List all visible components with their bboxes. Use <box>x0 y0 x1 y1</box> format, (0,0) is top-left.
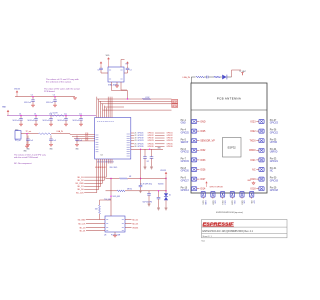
svg-text:4: 4 <box>100 121 102 122</box>
svg-text:21: 21 <box>104 161 106 163</box>
svg-text:21: 21 <box>135 133 137 135</box>
svg-text:GPIO7 GPIO8: GPIO7 GPIO8 <box>210 187 224 189</box>
svg-text:IO18: IO18 <box>250 188 256 191</box>
svg-text:IO21: IO21 <box>250 159 256 162</box>
svg-text:VDD33: VDD33 <box>158 183 164 185</box>
svg-text:GPIO14: GPIO14 <box>181 190 190 192</box>
svg-text:PCB ANTENNA: PCB ANTENNA <box>217 97 241 101</box>
svg-text:TP4_out: TP4_out <box>15 139 22 142</box>
svg-text:Sheet 1 / 1: Sheet 1 / 1 <box>203 235 212 238</box>
svg-text:SD_D1: SD_D1 <box>79 230 85 232</box>
svg-text:NC/0.1uF: NC/0.1uF <box>43 120 50 122</box>
svg-text:GND: GND <box>49 149 53 151</box>
svg-text:U0TXD: U0TXD <box>270 142 278 144</box>
svg-text:21: 21 <box>110 161 112 163</box>
svg-text:C11: C11 <box>64 113 67 115</box>
svg-text:IO22: IO22 <box>85 137 88 139</box>
svg-text:GPIO23: GPIO23 <box>137 140 143 142</box>
svg-text:SD_CLK: SD_CLK <box>76 192 84 194</box>
svg-text:NC/0.1uF: NC/0.1uF <box>58 120 65 122</box>
svg-text:S2S3CMCKD0D1: S2S3CMCKD0D1 <box>95 167 107 169</box>
svg-text:GND: GND <box>204 200 206 205</box>
svg-text:21: 21 <box>100 161 102 163</box>
svg-text:NC/0.1uF: NC/0.1uF <box>28 120 35 122</box>
svg-text:GPIO26: GPIO26 <box>137 146 143 148</box>
svg-text:GPIO23: GPIO23 <box>148 140 154 142</box>
svg-text:21: 21 <box>111 161 113 163</box>
svg-text:ESP32S3-WROOM (top view): ESP32S3-WROOM (top view) <box>216 211 243 214</box>
svg-text:GPIO23: GPIO23 <box>167 140 173 142</box>
svg-text:SD_D0: SD_D0 <box>77 189 83 191</box>
svg-text:C2: C2 <box>130 70 132 72</box>
svg-text:SD_D3: SD_D3 <box>132 223 138 225</box>
svg-text:4: 4 <box>110 121 112 122</box>
svg-text:GPIO23: GPIO23 <box>270 123 279 125</box>
svg-text:ESP32-PICO-D4 / 4M (QIO/80MHz/: ESP32-PICO-D4 / 4M (QIO/80MHz/DIO) Rev. … <box>203 231 254 233</box>
svg-text:VDD_SDIO: VDD_SDIO <box>110 167 119 169</box>
svg-text:GPIO19: GPIO19 <box>270 180 279 182</box>
svg-text:4: 4 <box>96 121 98 122</box>
svg-text:IO26: IO26 <box>200 168 206 171</box>
svg-text:C6: C6 <box>53 94 55 96</box>
svg-text:0R: 0R <box>129 176 132 178</box>
svg-text:IO22: IO22 <box>211 200 213 205</box>
svg-text:0.1uF (4PK NC): 0.1uF (4PK NC) <box>140 183 152 185</box>
svg-text:VDD33: VDD33 <box>160 170 166 172</box>
svg-text:GND: GND <box>75 149 79 151</box>
svg-text:GPIO26: GPIO26 <box>148 146 154 148</box>
svg-text:IO23: IO23 <box>250 120 256 123</box>
svg-text:4: 4 <box>104 121 106 122</box>
svg-text:the selection of the crystal.: the selection of the crystal. <box>46 81 72 84</box>
svg-text:NC: NC <box>270 171 274 173</box>
svg-text:IO23: IO23 <box>85 140 88 142</box>
svg-text:GND: GND <box>181 123 186 125</box>
svg-text:NC/0.1uF: NC/0.1uF <box>24 102 31 104</box>
svg-text:IO27: IO27 <box>200 178 206 181</box>
svg-text:21: 21 <box>108 161 110 163</box>
svg-text:NC/0.1uF: NC/0.1uF <box>73 120 80 122</box>
svg-text:IO19: IO19 <box>221 200 223 205</box>
svg-text:NC/0.1uF: NC/0.1uF <box>13 120 20 122</box>
svg-text:U3: U3 <box>104 235 106 237</box>
svg-text:RXD0: RXD0 <box>249 149 256 152</box>
svg-text:SD_CMD: SD_CMD <box>75 183 84 185</box>
svg-text:IO23: IO23 <box>231 200 233 205</box>
svg-text:IO21: IO21 <box>202 200 204 205</box>
svg-text:TP_out: TP_out <box>26 130 32 133</box>
svg-text:4: 4 <box>102 121 104 122</box>
svg-text:IO21: IO21 <box>85 135 88 137</box>
svg-text:SD_D2: SD_D2 <box>132 219 138 221</box>
svg-text:1uF: 1uF <box>53 140 56 142</box>
svg-text:XT_P: XT_P <box>172 102 177 104</box>
svg-text:4: 4 <box>106 121 108 122</box>
svg-text:GPIO22: GPIO22 <box>270 132 279 134</box>
svg-text:22: 22 <box>135 135 137 137</box>
svg-text:GPIO26: GPIO26 <box>181 171 190 173</box>
svg-text:IO14: IO14 <box>200 188 206 191</box>
svg-text:1uF: 1uF <box>30 140 33 142</box>
svg-text:SENVP: SENVP <box>181 142 189 144</box>
svg-text:U0RXD: U0RXD <box>270 152 278 154</box>
svg-text:The values of C1 and C2 vary w: The values of C1 and C2 vary with <box>46 78 80 81</box>
svg-text:GPIO25: GPIO25 <box>181 132 190 134</box>
svg-text:SD_D1: SD_D1 <box>77 186 83 188</box>
svg-text:The value of R1 varies with th: The value of R1 varies with the actual <box>44 87 80 90</box>
svg-text:C12: C12 <box>79 113 82 115</box>
svg-text:IO22: IO22 <box>250 130 256 133</box>
svg-text:NC: NC <box>147 161 150 163</box>
svg-text:GND: GND <box>15 129 19 131</box>
svg-text:SENSOR_VP: SENSOR_VP <box>200 140 215 143</box>
svg-text:21: 21 <box>98 161 100 163</box>
svg-text:VDD_EFl: VDD_EFl <box>113 196 121 198</box>
svg-text:GPIO32: GPIO32 <box>181 152 190 154</box>
svg-text:TXD0: TXD0 <box>249 140 256 143</box>
svg-text:4: 4 <box>98 121 100 122</box>
svg-text:VBAT: VBAT <box>2 105 6 108</box>
svg-text:VDD33: VDD33 <box>132 227 138 229</box>
svg-text:IO33: IO33 <box>200 159 206 162</box>
svg-text:R1: R1 <box>126 64 128 66</box>
svg-text:Mod.: Mod. <box>202 240 206 242</box>
svg-text:25: 25 <box>135 144 137 146</box>
svg-text:C9: C9 <box>34 113 36 115</box>
svg-text:D1: D1 <box>169 194 171 196</box>
svg-text:IO25: IO25 <box>200 130 206 133</box>
svg-text:21: 21 <box>96 161 98 163</box>
svg-text:21: 21 <box>106 161 108 163</box>
svg-text:NC: No component: NC: No component <box>14 162 32 165</box>
svg-text:GPIO27: GPIO27 <box>181 180 190 182</box>
svg-text:NC/0.1uF: NC/0.1uF <box>46 102 53 104</box>
svg-text:IO18: IO18 <box>240 200 242 205</box>
svg-text:23: 23 <box>135 140 137 142</box>
svg-text:4: 4 <box>111 121 113 122</box>
svg-text:ESP32: ESP32 <box>228 145 237 149</box>
svg-text:with the actual PCB board.: with the actual PCB board. <box>14 156 39 159</box>
svg-text:SD_CMD: SD_CMD <box>78 219 86 221</box>
svg-text:GND: GND <box>200 120 206 123</box>
svg-text:4: 4 <box>108 121 110 122</box>
svg-text:SD_D0: SD_D0 <box>79 227 85 229</box>
svg-text:LNA_IN: LNA_IN <box>57 130 64 133</box>
svg-text:GPIO18: GPIO18 <box>270 190 279 192</box>
svg-text:GPIO33: GPIO33 <box>181 161 190 163</box>
svg-text:21: 21 <box>102 161 104 163</box>
svg-text:The values of C8, L2 and TP4 v: The values of C8, L2 and TP4 vary <box>14 154 47 157</box>
svg-text:GPIO21: GPIO21 <box>270 161 279 163</box>
svg-text:XT_N: XT_N <box>172 106 177 108</box>
svg-text:TCK_EFl: TCK_EFl <box>104 199 111 201</box>
svg-text:C5: C5 <box>31 94 33 96</box>
svg-text:1uF: 1uF <box>79 140 82 142</box>
svg-text:IO19: IO19 <box>85 133 88 135</box>
svg-text:26: 26 <box>135 146 137 148</box>
svg-text:GND: GND <box>26 149 30 151</box>
svg-text:SD_D3: SD_D3 <box>77 177 83 179</box>
svg-text:NC: NC <box>252 168 256 171</box>
svg-text:19: 19 <box>135 138 137 140</box>
svg-text:0R NC: 0R NC <box>127 189 133 191</box>
svg-text:IO7: IO7 <box>252 200 254 204</box>
svg-text:C8: C8 <box>19 113 21 115</box>
svg-text:IO32: IO32 <box>200 149 206 152</box>
svg-text:GPIO26: GPIO26 <box>167 146 173 148</box>
svg-text:IO19: IO19 <box>250 178 256 181</box>
svg-text:VDD: VDD <box>106 55 110 57</box>
svg-text:10K: 10K <box>95 209 99 211</box>
svg-text:SaP3.042Pb: SaP3.042Pb <box>143 202 153 204</box>
svg-text:SD_D2: SD_D2 <box>77 180 83 182</box>
svg-text:PCB board.: PCB board. <box>44 91 55 93</box>
svg-text:LNA_IN: LNA_IN <box>183 76 191 79</box>
svg-text:SD_CLK: SD_CLK <box>78 223 86 225</box>
svg-text:IO10: IO10 <box>223 200 225 205</box>
svg-text:C10: C10 <box>49 113 52 115</box>
svg-text:VDD33: VDD33 <box>14 88 20 90</box>
svg-text:C1: C1 <box>97 70 99 72</box>
svg-text:GND: GND <box>23 150 27 152</box>
svg-text:U2: U2 <box>101 155 103 157</box>
